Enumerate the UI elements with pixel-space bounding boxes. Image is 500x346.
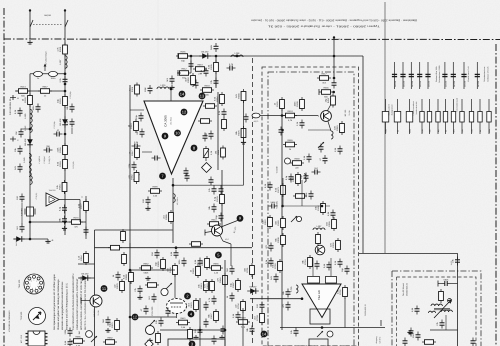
- capacitor C304: [319, 144, 324, 153]
- legend wire cap 7: [452, 62, 454, 89]
- resistor R501: [78, 251, 89, 265]
- capacitor C503: [64, 328, 73, 337]
- capacitor C203: [166, 76, 175, 85]
- svg-text:1k: 1k: [445, 130, 448, 132]
- legend wire cap 9: [476, 62, 478, 89]
- junction y239: [29, 238, 32, 241]
- legend wire cap 2: [402, 62, 404, 89]
- capacitor C324: [290, 328, 299, 337]
- block F302: [326, 277, 337, 284]
- legend wire res 12: [488, 99, 490, 134]
- junction x334 y78: [333, 77, 336, 80]
- pin dot P5: [215, 252, 222, 259]
- ground under left stub: [27, 40, 32, 44]
- wire x191 drop: [190, 56, 192, 73]
- op-amp U201 CA3065 triangle: [144, 101, 203, 174]
- svg-text:SUPPLY / ALL VOLTAGES REFER TO: SUPPLY / ALL VOLTAGES REFER TO CHASSIS: [84, 279, 87, 330]
- pin dot P2a: [184, 293, 191, 300]
- svg-text:R389: R389: [152, 186, 158, 189]
- capacitor C512: [155, 318, 164, 327]
- svg-text:1n|22: 1n|22: [450, 261, 453, 265]
- op-amp U301 TBA120 triangle: [302, 284, 341, 318]
- bottom box outline D3: [309, 339, 328, 346]
- svg-text:100n: 100n: [51, 77, 57, 80]
- svg-text:C 18|5p6: C 18|5p6: [43, 156, 46, 163]
- terminal dot x334: [333, 36, 335, 38]
- capacitor C306: [319, 155, 328, 164]
- resistor R301: [317, 73, 331, 85]
- capacitor C305: [303, 154, 312, 163]
- svg-text:R270: R270: [73, 217, 79, 220]
- junction x200 y330: [199, 329, 202, 332]
- resistor R230: [193, 64, 207, 76]
- diode D103: [13, 236, 25, 242]
- resistor R522: [199, 256, 210, 270]
- svg-text:4,7k: 4,7k: [471, 129, 474, 132]
- svg-text:L207: L207: [59, 59, 62, 65]
- svg-text:L242: L242: [24, 125, 27, 131]
- wire y239: [14, 238, 48, 240]
- svg-text:R690: R690: [213, 263, 219, 266]
- capacitor C404: [436, 320, 445, 329]
- legend resistor LR11: [478, 112, 482, 123]
- resistor R224: [207, 219, 221, 231]
- wire tri1 stub: [312, 270, 314, 276]
- legend wire res 8: [453, 99, 455, 134]
- junction x30 y222: [29, 221, 32, 224]
- outer border top dash-dot: [4, 38, 500, 41]
- svg-text:BF 199: BF 199: [344, 109, 347, 116]
- capacitor C107: [16, 194, 25, 203]
- capacitor C217: [244, 114, 249, 123]
- filter F102: [49, 71, 58, 79]
- resistor R402: [422, 340, 436, 345]
- junction x334 y92: [332, 91, 335, 94]
- pin dot P9: [237, 215, 244, 222]
- capacitor C405: [471, 338, 476, 346]
- resistor R311: [275, 216, 286, 230]
- wire tri2 stub: [330, 270, 332, 276]
- svg-text:10: 10: [175, 130, 180, 135]
- capacitor C202: [210, 78, 219, 87]
- svg-text:L319: L319: [161, 84, 167, 87]
- svg-text:Dralowid-Ero 100n: Dralowid-Ero 100n: [435, 66, 438, 82]
- terminal dot A2: [64, 9, 66, 11]
- pin 14 of U201: [179, 91, 186, 98]
- junction x282 y115b: [281, 129, 284, 132]
- capacitor C407: [409, 328, 414, 337]
- inductor L106: [30, 176, 32, 185]
- svg-text:Scheibenkondens.: Scheibenkondens.: [483, 66, 486, 82]
- capacitor C206: [190, 80, 199, 89]
- svg-text:0,1μ: 0,1μ: [58, 206, 61, 211]
- svg-text:R312: R312: [181, 68, 187, 71]
- resistor R510: [123, 270, 134, 284]
- resistor R212: [214, 92, 225, 106]
- legend resistor LR4: [420, 112, 424, 123]
- capacitor C140: [14, 146, 23, 155]
- capacitor C303: [279, 127, 284, 136]
- ground d2c: [147, 338, 152, 342]
- capacitor C221: [208, 186, 217, 195]
- wire y317 d2: [130, 316, 176, 318]
- wire x86 c1: [85, 196, 87, 239]
- wire y299 d3: [250, 298, 302, 300]
- capacitor C542: [221, 326, 226, 335]
- junction x65 y91: [64, 90, 67, 93]
- svg-text:L235: L235: [24, 113, 27, 119]
- wire cap C104 stub: [21, 128, 30, 130]
- resistor R535: [156, 331, 161, 345]
- svg-text:2,2k: 2,2k: [421, 129, 424, 132]
- pin 7 of U201: [159, 173, 166, 180]
- wire x302 stub: [301, 180, 303, 206]
- svg-text:14: 14: [180, 91, 185, 96]
- pin dot P14b: [261, 331, 268, 338]
- legend wire res 6: [437, 99, 439, 134]
- wire x131 bus: [129, 248, 131, 346]
- svg-text:R662: R662: [143, 263, 149, 266]
- svg-text:Durchf.-kond. 1n5: Durchf.-kond. 1n5: [467, 66, 470, 81]
- resistor R211: [129, 146, 140, 160]
- wire main y56 right segment: [362, 56, 364, 253]
- wire x231 drop: [223, 241, 231, 244]
- resistor R504: [71, 336, 85, 346]
- svg-text:Alle Spannungen sind gemessen: Alle Spannungen sind gemessen mit 10 MOh…: [53, 274, 56, 330]
- capacitor C521: [134, 286, 143, 295]
- capacitor C303a: [334, 259, 343, 268]
- capacitor C511: [148, 294, 157, 303]
- resistor R317: [330, 238, 341, 252]
- inductor L105: [29, 168, 31, 177]
- capacitor C536: [212, 336, 217, 345]
- capacitor C323: [256, 302, 265, 311]
- junction y56 tuner: [333, 55, 336, 58]
- junction d3 b: [301, 297, 304, 300]
- wire y115 tuner: [260, 115, 318, 117]
- svg-text:TV-GB: TV-GB: [348, 110, 351, 116]
- svg-text:R641: R641: [180, 317, 186, 320]
- svg-text:1n5 250: 1n5 250: [411, 81, 414, 87]
- capacitor C308: [264, 182, 273, 191]
- pot P505 arrow: [149, 320, 155, 326]
- capacitor C302a: [323, 262, 332, 271]
- svg-text:TBA 120: TBA 120: [18, 279, 21, 288]
- resistor R532: [230, 278, 241, 292]
- junction d3 a: [321, 326, 324, 329]
- terminal y73 bar: [177, 70, 179, 76]
- filter F101: [34, 71, 43, 79]
- svg-text:Metallschicht 1%: Metallschicht 1%: [415, 101, 418, 114]
- capacitor C350: [341, 266, 350, 275]
- potentiometer R220 wiper: [134, 174, 140, 180]
- ground D1: [105, 328, 110, 332]
- varistor VDR201 diamond: [202, 163, 212, 173]
- capacitor C403: [412, 332, 421, 341]
- varistor diamond D2: [145, 340, 153, 346]
- resistor R315: [334, 121, 345, 135]
- svg-text:7,8 MHz: 7,8 MHz: [21, 208, 24, 216]
- junction x30 y129: [29, 128, 32, 131]
- svg-text:10μ: 10μ: [437, 130, 440, 133]
- wire y173 tuner stub: [282, 178, 284, 206]
- wire C105 stub: [71, 128, 73, 134]
- legend resistor LR10: [469, 112, 473, 123]
- capacitor C301: [332, 80, 337, 89]
- svg-text:L249: L249: [23, 157, 26, 163]
- svg-text:TCA 530: TCA 530: [20, 311, 23, 320]
- trimmer circle P304: [296, 216, 301, 221]
- capacitor C141: [14, 164, 23, 173]
- wire x200 bus d2: [199, 298, 201, 346]
- resistor R516: [176, 317, 190, 329]
- terminal bar C401a: [437, 281, 439, 287]
- svg-text:R417: R417: [321, 73, 327, 76]
- svg-text:WITHOUT AERIAL SIGNAL INPUT AT: WITHOUT AERIAL SIGNAL INPUT AT 220V MAIN…: [80, 276, 83, 330]
- resistor R104: [22, 93, 33, 107]
- ground c220: [145, 206, 150, 210]
- svg-text:40,2 MHz: 40,2 MHz: [176, 197, 179, 205]
- capacitor C111: [14, 108, 23, 117]
- wire x334 from top: [333, 37, 335, 78]
- capacitor C223: [215, 213, 224, 222]
- pin dot P30: [189, 341, 196, 346]
- svg-text:26300-003.31: 26300-003.31: [406, 282, 409, 296]
- inductor L301: [313, 225, 325, 230]
- svg-text:L 14|BFW: L 14|BFW: [38, 156, 41, 164]
- svg-text:Blatt/sheet - Bauserie 2330 -: Blatt/sheet - Bauserie 2330 - 026 01 mit…: [251, 19, 417, 22]
- capacitor C108: [16, 224, 25, 233]
- resistor R520: [155, 257, 166, 271]
- wire x243 col: [243, 100, 245, 185]
- svg-text:drahtgewickelt: drahtgewickelt: [391, 104, 394, 115]
- capacitor C533: [232, 312, 241, 321]
- resistor R141: [78, 199, 89, 213]
- resistor R210: [128, 119, 139, 133]
- capacitor C201: [210, 43, 219, 52]
- svg-text:CA 3065: CA 3065: [164, 115, 168, 127]
- arrowhead tuning: [44, 64, 47, 67]
- svg-text:12: 12: [182, 109, 187, 114]
- wire U101 out: [59, 199, 80, 201]
- wire x218 bus: [217, 92, 219, 170]
- wire bus y247.7: [95, 247, 253, 249]
- resistor R502: [109, 318, 120, 332]
- switch S1 link dashed: [33, 24, 62, 26]
- resistor R302: [283, 110, 297, 122]
- resistor R231: [185, 73, 196, 87]
- svg-text:R557: R557: [42, 86, 48, 89]
- diode D102: [59, 116, 68, 128]
- svg-text:100n: 100n: [32, 105, 35, 111]
- resistor R320: [244, 263, 255, 277]
- wire y73.75 left: [30, 73, 65, 75]
- resistor R503: [114, 279, 125, 293]
- svg-text:L725: L725: [290, 286, 293, 292]
- resistor R310: [275, 183, 286, 197]
- wire y327 d3: [280, 327, 385, 329]
- capacitor C216: [128, 162, 137, 171]
- svg-text:R648: R648: [240, 317, 246, 320]
- resistor R225: [189, 242, 203, 247]
- wire y206 tuner: [283, 205, 330, 207]
- wire x313 stub up: [312, 258, 314, 270]
- wire x173 drop: [172, 178, 174, 243]
- resistor R313: [316, 232, 321, 246]
- svg-text:R 21|10k: R 21|10k: [72, 161, 75, 168]
- capacitor C103: [59, 76, 68, 85]
- resistor R323: [254, 311, 265, 325]
- legend capacitor LC6: [442, 74, 447, 87]
- ground d2b: [137, 295, 142, 299]
- svg-text:R543: R543: [197, 64, 203, 67]
- resistor R505: [103, 337, 117, 346]
- inductor L202: [157, 84, 169, 89]
- pot circle P303: [327, 331, 333, 337]
- capacitor C214b: [203, 133, 208, 142]
- svg-text:Schichtwiderstand: Schichtwiderstand: [456, 98, 459, 112]
- diode D301: [247, 286, 259, 294]
- wire x225 bus: [224, 260, 226, 346]
- pot circle P502: [161, 288, 168, 295]
- svg-text:C 22|30p: C 22|30p: [69, 91, 72, 98]
- wire U101 top: [64, 192, 66, 194]
- photo diode diagram circle: [29, 308, 46, 325]
- ground C203: [169, 85, 174, 89]
- inductor L401: [428, 311, 435, 313]
- terminal bar T201 base: [204, 230, 206, 236]
- svg-text:TBA 120: TBA 120: [318, 289, 321, 300]
- svg-text:1n5 250: 1n5 250: [419, 81, 422, 87]
- svg-text:R424: R424: [287, 110, 293, 113]
- resistor R534: [145, 283, 159, 288]
- svg-text:temperatur und 220V Netzspannu: temperatur und 220V Netzspannung ca. 25 …: [65, 283, 68, 330]
- pin 10 of U201: [174, 130, 181, 137]
- scan streak 2: [390, 0, 392, 346]
- capacitor C143: [84, 227, 89, 236]
- svg-text:100n: 100n: [144, 86, 147, 92]
- capacitor C224: [170, 250, 179, 259]
- ground d4: [407, 330, 412, 334]
- svg-text:+: +: [81, 195, 83, 199]
- capacitor C109: [58, 205, 67, 214]
- capacitor C401 on x457: [451, 257, 460, 266]
- junction x191 y56: [190, 55, 193, 58]
- svg-text:1n5 250: 1n5 250: [403, 81, 406, 87]
- resistor R321: [272, 259, 283, 273]
- resistor R531: [209, 263, 223, 275]
- junction x282 y115: [281, 114, 284, 117]
- capacitor C112: [44, 145, 53, 152]
- resistor R222: [163, 210, 174, 224]
- terminal dot A1: [29, 9, 31, 11]
- ton-zf module box dashed inner: [397, 277, 477, 346]
- connector antenna input: [252, 113, 260, 118]
- svg-text:Scheibenkond. 500V: Scheibenkond. 500V: [438, 65, 441, 83]
- wire x457 drop: [457, 253, 459, 346]
- wire main y56: [178, 55, 363, 57]
- svg-text:1n: 1n: [397, 130, 400, 132]
- wire x331 stub up: [330, 258, 332, 270]
- capacitor C522: [208, 296, 217, 305]
- svg-text:40,7: 40,7: [225, 238, 229, 241]
- svg-text:14: 14: [262, 331, 267, 336]
- ground y239: [45, 239, 50, 243]
- terminal d4 bar: [380, 320, 382, 326]
- legend wire res 2: [397, 99, 399, 134]
- svg-text:100n: 100n: [409, 129, 412, 133]
- legend capacitor LC4: [417, 74, 422, 87]
- legend wire res 4: [421, 99, 423, 134]
- svg-text:100n: 100n: [294, 101, 297, 107]
- capacitor C501: [102, 317, 111, 326]
- resistor R306: [325, 94, 336, 108]
- capacitor C106: [54, 129, 63, 136]
- capacitor C535: [166, 308, 171, 317]
- transistor T301 BF199: [321, 111, 332, 122]
- wire x94.5 bus: [94, 230, 96, 346]
- terminal T1 bar: [12, 95, 14, 100]
- resistor R511: [167, 263, 178, 277]
- legend resistor LR3: [406, 112, 413, 123]
- legend wire res 5: [429, 99, 431, 134]
- legend capacitor LC1: [392, 74, 397, 87]
- wire T301 base stub: [317, 115, 320, 117]
- junction x65 y74: [64, 72, 67, 75]
- svg-text:elemente wie angegeben bei nor: elemente wie angegeben bei normaler Zimm…: [61, 281, 64, 330]
- resistor R107: [56, 180, 67, 194]
- resistor R305: [319, 87, 333, 99]
- capacitor C142: [66, 104, 75, 113]
- terminal T2 stub: [10, 138, 16, 140]
- legend wire cap 1: [394, 62, 396, 89]
- pin 8 of U201: [191, 145, 198, 152]
- svg-text:TA 4049: TA 4049: [276, 167, 279, 174]
- wire bus x30 upper: [29, 74, 31, 180]
- capacitor C105: [66, 119, 75, 128]
- svg-text:Ton-ZF-Baust.: Ton-ZF-Baust.: [402, 282, 405, 296]
- resistor R250: [108, 245, 122, 250]
- capacitor C342: [269, 201, 278, 208]
- resistor R101: [57, 43, 68, 57]
- capacitor C530: [178, 258, 187, 267]
- IC DIP package diagram: [26, 331, 48, 346]
- junction x173 y185: [172, 184, 175, 187]
- bottom box outline D2: [168, 339, 225, 346]
- capacitor C307: [305, 191, 314, 200]
- switch S1 contact right: [65, 20, 68, 27]
- inductor L102: [24, 109, 32, 122]
- resistor R202: [208, 60, 219, 74]
- capacitor C227: [185, 173, 190, 182]
- wire x222 c2: [221, 170, 223, 229]
- legend wire cap 3: [410, 62, 412, 89]
- junction x65 y134: [64, 133, 67, 136]
- pin dot P11: [101, 285, 108, 292]
- svg-text:Typen 26660 - 26661 - ohne Sch: Typen 26660 - 26661 - ohne Schaltuhr 266…: [267, 25, 380, 28]
- svg-text:R592: R592: [107, 337, 113, 340]
- svg-text:1n: 1n: [479, 130, 482, 132]
- resistor R350: [302, 255, 313, 269]
- legend capacitor LC7: [451, 74, 456, 87]
- capacitor C322: [282, 302, 291, 311]
- pin dot P4a: [188, 311, 195, 318]
- junction y247 x176: [175, 246, 178, 249]
- capacitor C320: [270, 274, 279, 283]
- legend wire res 3: [409, 99, 411, 134]
- wire x231 drop2: [230, 244, 232, 266]
- resistor R530: [190, 264, 201, 278]
